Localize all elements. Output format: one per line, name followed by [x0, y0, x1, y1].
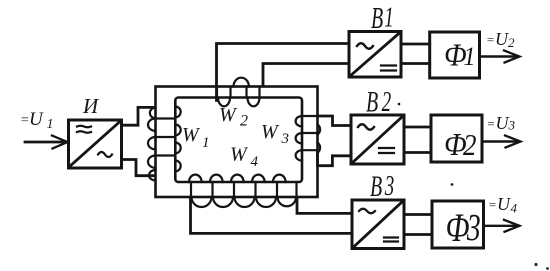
output arrow =U4 — [484, 220, 520, 232]
rectifier B1 DC symbol = — [381, 66, 396, 71]
input arrow wire =U1 — [25, 136, 68, 149]
speck dots — [451, 183, 549, 270]
label И — [82, 94, 100, 118]
rectifier B3 DC symbol = — [384, 238, 398, 242]
rectifier B2 DC symbol = — [379, 148, 394, 153]
svg-text:Ф: Ф — [446, 204, 470, 250]
output arrow =U2 — [480, 51, 520, 63]
label =U4 — [488, 194, 518, 216]
rectifier B1 AC symbol ~ — [357, 43, 373, 49]
svg-text:3: 3 — [466, 208, 481, 249]
label Ф2 — [444, 129, 476, 163]
svg-text:В: В — [371, 1, 383, 35]
label W4 — [230, 144, 259, 171]
label =U3 — [487, 113, 516, 133]
transformer core inner rectangle — [175, 98, 302, 183]
label W1 — [182, 124, 210, 151]
filter Ф2 box — [431, 115, 482, 162]
svg-text:2: 2 — [508, 35, 515, 50]
svg-text:4: 4 — [251, 154, 259, 170]
label Ф1 — [444, 39, 475, 73]
svg-text:3: 3 — [281, 131, 290, 147]
svg-text:3: 3 — [508, 118, 516, 133]
wire W4 left terminal to B3 bottom input — [191, 199, 353, 234]
wires B2 to Ф2 — [404, 127, 431, 153]
svg-text:U: U — [495, 29, 509, 49]
svg-text:W: W — [219, 104, 238, 126]
svg-text:2: 2 — [463, 129, 476, 163]
inverter U (И) box — [69, 120, 122, 168]
label =U2 — [486, 29, 515, 50]
svg-text:1: 1 — [384, 2, 393, 34]
svg-text:3: 3 — [384, 172, 394, 202]
svg-text:4: 4 — [511, 201, 518, 216]
label Ф3 — [446, 204, 481, 250]
svg-text:=: = — [488, 197, 497, 212]
transformer core outer rectangle — [156, 87, 318, 198]
wire W2 left terminal to B1 top input — [217, 44, 350, 101]
rectifier B2 box — [351, 115, 404, 164]
wire И top output to W1 top — [122, 107, 155, 125]
rectifier B3 AC symbol ~ — [359, 209, 375, 214]
svg-text:U: U — [29, 109, 44, 130]
label B1 — [371, 1, 394, 35]
wires B3 to Ф3 — [404, 215, 432, 235]
svg-text:1: 1 — [202, 135, 210, 151]
winding W2 — [217, 78, 260, 107]
svg-text:1: 1 — [47, 117, 54, 132]
svg-text:2: 2 — [240, 113, 248, 130]
svg-text:В: В — [366, 87, 378, 119]
wire W4 right terminal to B3 top input — [297, 198, 352, 213]
svg-text:W: W — [230, 144, 249, 166]
label =U1 — [20, 109, 54, 132]
svg-text:И: И — [82, 94, 100, 118]
winding W1 — [148, 107, 181, 181]
svg-text:W: W — [261, 121, 280, 143]
svg-text:=: = — [487, 116, 496, 131]
label B2 — [366, 87, 400, 119]
svg-text:1: 1 — [464, 41, 476, 72]
inverter И DC symbol = — [77, 126, 91, 133]
label W2 — [219, 104, 248, 130]
output arrow =U3 — [482, 136, 521, 148]
svg-text:=: = — [486, 32, 495, 47]
wire W3 top terminal to B2 top input — [318, 116, 352, 126]
wires B1 to Ф1 — [401, 44, 430, 64]
rectifier B3 box — [352, 200, 404, 249]
inverter И AC symbol ~ — [98, 152, 112, 157]
wire И bottom output to W1 bottom — [122, 160, 155, 176]
svg-text:В: В — [370, 171, 382, 203]
winding W4 — [189, 175, 297, 207]
wire W3 bottom terminal to B2 bottom input — [318, 152, 352, 166]
label B3 — [370, 171, 394, 203]
label W3 — [261, 121, 289, 147]
svg-text:2: 2 — [382, 87, 392, 117]
svg-text:U: U — [496, 113, 510, 133]
winding W3 — [296, 116, 321, 161]
svg-text:U: U — [497, 194, 511, 214]
wire W2 right terminal to B1 bottom input — [263, 64, 349, 87]
svg-text:W: W — [182, 124, 201, 146]
rectifier B1 box — [349, 32, 401, 78]
filter Ф3 box — [432, 201, 484, 248]
filter Ф1 box — [430, 32, 480, 78]
rectifier B2 AC symbol ~ — [358, 124, 374, 130]
